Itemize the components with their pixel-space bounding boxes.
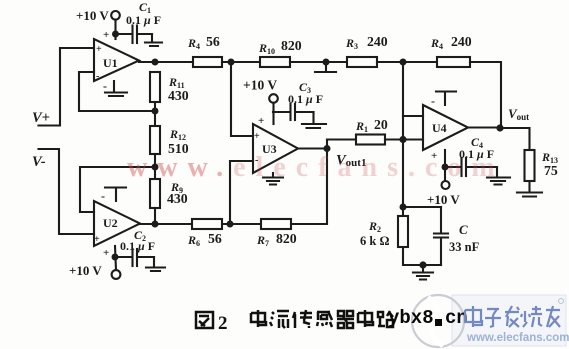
svg-text:-: - [103, 79, 107, 93]
svg-text:56: 56 [208, 231, 222, 246]
node R12/R9 feedback U2 [152, 164, 159, 171]
svg-text:0.1 μ F: 0.1 μ F [126, 13, 161, 27]
wire U2 - input feedback [80, 167, 155, 212]
char 流 [270, 311, 289, 328]
resistor R10 [260, 57, 290, 67]
svg-text:-: - [101, 189, 105, 203]
svg-text:+: + [96, 44, 102, 55]
ground below R13 [517, 181, 542, 197]
resistor R7 [261, 219, 291, 229]
svg-text:U2: U2 [103, 216, 118, 230]
capacitor C3 [273, 111, 290, 113]
ground below R2/C [413, 265, 433, 280]
char 子 logo [485, 309, 501, 327]
ground below U3 [263, 173, 283, 185]
node U1 output [152, 59, 159, 66]
svg-text:www.elecfans.com: www.elecfans.com [466, 332, 569, 344]
svg-text:U4: U4 [432, 121, 447, 135]
resistor R1 [356, 135, 385, 145]
svg-text:ybx8.cn: ybx8.cn [388, 307, 468, 329]
svg-text:R10: R10 [258, 41, 275, 56]
resistor R13 [525, 150, 535, 181]
svg-text:+: + [103, 247, 109, 259]
wire R5 to Vout corner [470, 62, 501, 128]
char 发 logo [505, 306, 519, 327]
node stub between R10 and R3 [323, 59, 330, 66]
char 电 (second) [358, 310, 373, 327]
ground at C4 [487, 167, 510, 185]
capacitor C4 [445, 166, 461, 168]
wire U1 + input [39, 48, 95, 126]
svg-text:33 nF: 33 nF [449, 240, 480, 254]
svg-text:R4: R4 [187, 36, 200, 51]
wire U1 - input feedback [79, 72, 155, 111]
caption 电流传感器电路 [251, 310, 393, 328]
node U3 output [324, 145, 331, 152]
wire top row U1 output to R4 [139, 61, 193, 63]
ground below U1 [105, 81, 127, 96]
resistor R9 [150, 179, 160, 208]
wire R2 bottom [403, 247, 441, 265]
op-amp U2 [94, 201, 140, 246]
svg-text:+: + [254, 131, 260, 142]
watermark ybx8.cn dot [435, 319, 442, 326]
wire R3 to R5 [377, 61, 437, 63]
svg-text:+: + [94, 234, 100, 245]
svg-text:R1: R1 [355, 119, 368, 134]
wire R9 to bottom row [154, 208, 156, 224]
char 友 logo [546, 306, 560, 327]
wire to U4 + input [403, 138, 423, 140]
wire R1 row [327, 138, 356, 140]
resistor R2 [398, 216, 408, 247]
svg-text:+10 V: +10 V [76, 8, 109, 23]
capacitor C 33nF [440, 207, 442, 233]
char 电 [251, 310, 266, 327]
logo 电子发烧友 [465, 306, 560, 327]
svg-text:R6: R6 [187, 233, 200, 248]
op-amp U1 [94, 39, 139, 81]
svg-text:820: 820 [276, 231, 297, 246]
node R2/C branch [400, 204, 407, 211]
ground at C1 [145, 34, 162, 46]
op-amp U3 [253, 124, 298, 173]
node U2 output [152, 221, 159, 228]
ground at C2 [146, 257, 165, 271]
wire Vout to R13 [500, 128, 530, 150]
inverted ground above U4 [436, 92, 456, 106]
capacitor C1 [116, 33, 132, 35]
caption 图 2 [196, 312, 213, 328]
svg-text:56: 56 [206, 34, 220, 49]
svg-text:R12: R12 [169, 127, 186, 142]
wire R12 to R9 [154, 154, 156, 179]
node R1/U4+ [399, 136, 406, 143]
resistor R3 [347, 57, 377, 67]
svg-text:Vout: Vout [508, 106, 529, 122]
vertical feed column right [402, 62, 404, 216]
svg-text:-: - [431, 94, 435, 108]
power terminal +10V U1 [111, 11, 120, 20]
capacitor C2 [115, 256, 132, 258]
node U1 power / C1 [112, 31, 119, 38]
resistor R4 [193, 57, 222, 67]
char 感 [317, 311, 332, 327]
svg-text:U1: U1 [103, 56, 118, 70]
svg-text:+: + [103, 29, 109, 41]
svg-text:www.elecfans.com: www.elecfans.com [127, 152, 505, 183]
node R6/R7/U3- [227, 221, 234, 228]
wire U4 output [468, 126, 501, 128]
power stem U2 [115, 246, 116, 270]
svg-text:20: 20 [374, 117, 388, 132]
svg-text:R3: R3 [345, 36, 358, 51]
node ground tap R2/C [419, 261, 426, 268]
char 电 logo [465, 306, 482, 327]
power terminal +10V U4 [442, 181, 450, 189]
char 烧 logo [521, 306, 542, 327]
watermark swirl circle [412, 295, 464, 347]
svg-text:C: C [459, 222, 468, 237]
node Vout [496, 124, 503, 131]
op-amp U4 [423, 105, 468, 150]
wire R4 to R10 [222, 61, 260, 63]
inverted ground above U2 [105, 188, 126, 202]
svg-text:+10 V: +10 V [69, 263, 102, 278]
node R3/R5/U4 column [400, 59, 407, 66]
elecfans logo box [452, 295, 566, 346]
wire U3 + input from top row [231, 62, 253, 136]
svg-text:6 k Ω: 6 k Ω [360, 234, 389, 248]
char 传 [293, 310, 312, 328]
wire to U4 - input [403, 115, 423, 117]
svg-text:R4: R4 [430, 36, 443, 51]
svg-text:0.1 μ F: 0.1 μ F [288, 92, 323, 106]
svg-text:0.1 μ F: 0.1 μ F [120, 239, 155, 253]
wire R10 to R3 [290, 61, 347, 63]
resistor R6 [192, 219, 222, 229]
svg-text:V-: V- [32, 154, 46, 170]
node R11/R12 feedback U1 [152, 108, 159, 115]
power stem U4 [444, 150, 446, 181]
svg-text:430: 430 [167, 191, 188, 206]
svg-text:430: 430 [168, 88, 189, 103]
svg-text:+10 V: +10 V [243, 78, 277, 93]
power terminal +10V U3 [269, 94, 278, 103]
svg-text:R2: R2 [368, 219, 381, 234]
ground at C3 [302, 112, 326, 128]
svg-text:V+: V+ [32, 110, 50, 126]
wire node to C 33nF [403, 206, 441, 208]
resistor R5 (labelled R4 240) [437, 57, 470, 67]
wire U2 output [140, 223, 192, 225]
svg-text:240: 240 [367, 34, 388, 49]
wire U3 - input from bottom row [230, 161, 253, 224]
char 器 [337, 311, 354, 328]
svg-text:240: 240 [451, 34, 472, 49]
wire U2 + input from V- [39, 149, 95, 234]
logo registered mark [559, 299, 564, 304]
svg-text:+10 V: +10 V [427, 192, 460, 207]
node U2 power / C2 [112, 254, 119, 261]
resistor R12 [150, 126, 160, 154]
node U4 power / C4 [442, 164, 449, 171]
bottom row wires R6 R7 [222, 223, 261, 225]
svg-text:+: + [258, 115, 264, 127]
wire R11 to R12 [154, 102, 156, 126]
wire R1 to column [385, 138, 403, 140]
node R4/R10/U3+ [228, 59, 235, 66]
power terminal +10V U2 [112, 270, 121, 279]
svg-text:-: - [96, 71, 99, 82]
resistor R11 [150, 72, 160, 102]
wire R7 to riser [291, 140, 327, 225]
char 路 [378, 311, 393, 327]
wire U3 output [298, 147, 327, 149]
svg-text:R7: R7 [256, 233, 269, 248]
svg-text:75: 75 [544, 163, 558, 178]
svg-text:820: 820 [281, 38, 302, 53]
svg-text:2: 2 [218, 313, 228, 334]
